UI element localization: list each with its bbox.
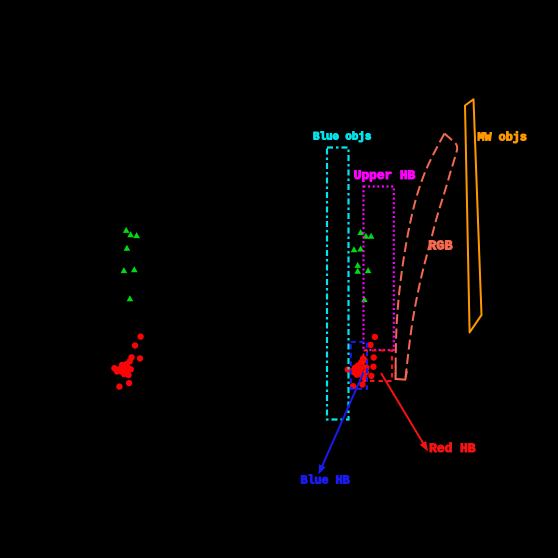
Blue HB arrow bbox=[319, 373, 364, 475]
left panel red dots (HB stars) bbox=[111, 333, 144, 389]
svg-text:Blue HB: Blue HB bbox=[301, 473, 350, 487]
middle panel green triangles (RGB stars) bbox=[351, 229, 375, 302]
RGB region boundary (salmon dashed band) bbox=[396, 134, 458, 380]
MW objs region (orange solid quadrilateral) bbox=[465, 99, 482, 332]
svg-text:Upper HB: Upper HB bbox=[354, 168, 416, 183]
svg-text:Red HB: Red HB bbox=[429, 441, 476, 456]
Upper HB selection box (magenta dotted rectangle) bbox=[364, 187, 394, 351]
middle panel red dots (HB stars) bbox=[345, 334, 379, 390]
Red HB arrow bbox=[381, 373, 428, 452]
svg-text:MW objs: MW objs bbox=[477, 130, 527, 144]
svg-text:Blue objs: Blue objs bbox=[313, 131, 371, 143]
svg-text:RGB: RGB bbox=[428, 239, 452, 254]
left panel green triangles (RGB stars) bbox=[121, 227, 140, 301]
Blue objs selection box (cyan dash-dot rectangle) bbox=[327, 148, 349, 420]
Blue HB selection box (blue dashed rectangle) bbox=[351, 342, 367, 389]
Red HB selection box (red dashed rectangle) bbox=[364, 351, 393, 382]
